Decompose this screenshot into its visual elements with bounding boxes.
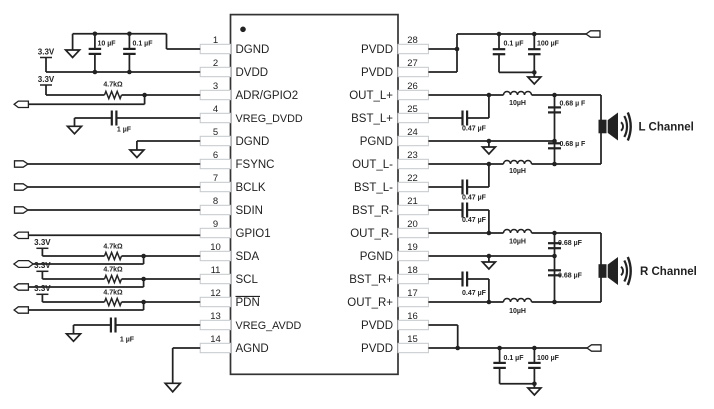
svg-text:DGND: DGND: [236, 44, 270, 56]
svg-text:OUT_R-: OUT_R-: [350, 228, 393, 240]
svg-text:VREG_AVDD: VREG_AVDD: [236, 320, 302, 332]
svg-text:10: 10: [210, 242, 221, 253]
svg-text:3.3V: 3.3V: [34, 284, 51, 293]
svg-text:1 µF: 1 µF: [117, 127, 132, 134]
svg-text:AGND: AGND: [236, 343, 269, 355]
svg-text:12: 12: [210, 288, 221, 299]
svg-text:4.7kΩ: 4.7kΩ: [103, 81, 123, 88]
svg-text:OUT_L-: OUT_L-: [352, 159, 393, 171]
svg-text:0.1 µF: 0.1 µF: [504, 41, 525, 48]
svg-text:9: 9: [213, 219, 218, 230]
svg-text:25: 25: [407, 104, 418, 115]
svg-text:SDA: SDA: [236, 251, 260, 263]
svg-text:BST_R+: BST_R+: [349, 274, 393, 286]
svg-text:PVDD: PVDD: [361, 44, 393, 56]
svg-text:BCLK: BCLK: [236, 182, 266, 194]
svg-text:0.1 µF: 0.1 µF: [133, 41, 154, 48]
svg-text:3.3V: 3.3V: [34, 261, 51, 270]
svg-text:5: 5: [213, 127, 218, 138]
svg-text:GPIO1: GPIO1: [236, 228, 271, 240]
svg-text:23: 23: [407, 150, 418, 161]
svg-text:0.68 µF: 0.68 µF: [558, 240, 583, 247]
svg-text:21: 21: [407, 196, 418, 207]
svg-text:22: 22: [407, 173, 418, 184]
svg-text:3.3V: 3.3V: [34, 238, 51, 247]
svg-text:10µH: 10µH: [509, 168, 526, 175]
svg-text:SDIN: SDIN: [236, 205, 263, 217]
svg-text:3.3V: 3.3V: [38, 75, 55, 84]
svg-text:19: 19: [407, 242, 418, 253]
svg-text:14: 14: [210, 334, 221, 345]
svg-text:20: 20: [407, 219, 418, 230]
svg-text:10 µF: 10 µF: [98, 41, 117, 48]
svg-text:BST_R-: BST_R-: [352, 205, 393, 217]
svg-text:0.47 µF: 0.47 µF: [462, 194, 487, 201]
svg-text:11: 11: [211, 265, 221, 276]
svg-text:13: 13: [210, 311, 221, 322]
svg-text:10µH: 10µH: [509, 238, 526, 245]
svg-text:28: 28: [407, 35, 418, 46]
svg-text:100 µF: 100 µF: [537, 41, 560, 48]
svg-text:17: 17: [407, 288, 418, 299]
svg-text:18: 18: [407, 265, 418, 276]
svg-text:26: 26: [407, 81, 418, 92]
svg-text:3: 3: [213, 81, 218, 92]
svg-text:4.7kΩ: 4.7kΩ: [103, 244, 123, 251]
svg-text:3.3V: 3.3V: [38, 47, 55, 56]
svg-text:100 µF: 100 µF: [537, 355, 560, 362]
svg-text:4: 4: [213, 104, 218, 115]
svg-text:6: 6: [213, 150, 218, 161]
svg-text:PDN: PDN: [236, 297, 260, 309]
svg-text:VREG_DVDD: VREG_DVDD: [236, 113, 303, 125]
svg-text:L Channel: L Channel: [639, 122, 694, 134]
svg-text:BST_L-: BST_L-: [354, 182, 393, 194]
svg-text:0.68 µF: 0.68 µF: [558, 273, 583, 280]
svg-text:R Channel: R Channel: [640, 266, 697, 278]
svg-text:OUT_R+: OUT_R+: [347, 297, 393, 309]
svg-text:7: 7: [213, 173, 218, 184]
svg-text:SCL: SCL: [236, 274, 259, 286]
svg-text:PVDD: PVDD: [361, 67, 393, 79]
svg-text:0.47 µF: 0.47 µF: [462, 217, 487, 224]
svg-text:PGND: PGND: [360, 136, 393, 148]
svg-text:PVDD: PVDD: [361, 320, 393, 332]
svg-text:15: 15: [407, 334, 418, 345]
svg-text:4.7kΩ: 4.7kΩ: [103, 290, 123, 297]
svg-text:24: 24: [407, 127, 418, 138]
svg-text:0.68 µ F: 0.68 µ F: [560, 101, 587, 108]
svg-text:8: 8: [213, 196, 218, 207]
svg-text:1: 1: [213, 35, 218, 46]
svg-text:DVDD: DVDD: [236, 67, 269, 79]
svg-text:BST_L+: BST_L+: [351, 113, 393, 125]
svg-text:16: 16: [407, 311, 418, 322]
svg-text:4.7kΩ: 4.7kΩ: [103, 267, 123, 274]
svg-text:0.68 µ F: 0.68 µ F: [560, 141, 587, 148]
svg-text:10µH: 10µH: [509, 308, 526, 315]
svg-text:PVDD: PVDD: [361, 343, 393, 355]
svg-text:DGND: DGND: [236, 136, 270, 148]
svg-text:FSYNC: FSYNC: [236, 159, 275, 171]
svg-text:0.47 µF: 0.47 µF: [462, 290, 487, 297]
svg-text:27: 27: [407, 58, 418, 69]
svg-text:PGND: PGND: [360, 251, 393, 263]
svg-text:ADR/GPIO2: ADR/GPIO2: [236, 90, 299, 102]
svg-text:2: 2: [213, 58, 218, 69]
svg-text:10µH: 10µH: [509, 100, 526, 107]
svg-text:0.47 µF: 0.47 µF: [462, 125, 487, 132]
svg-text:0.1 µF: 0.1 µF: [504, 355, 525, 362]
svg-text:OUT_L+: OUT_L+: [349, 90, 393, 102]
svg-text:1 µF: 1 µF: [120, 337, 135, 344]
